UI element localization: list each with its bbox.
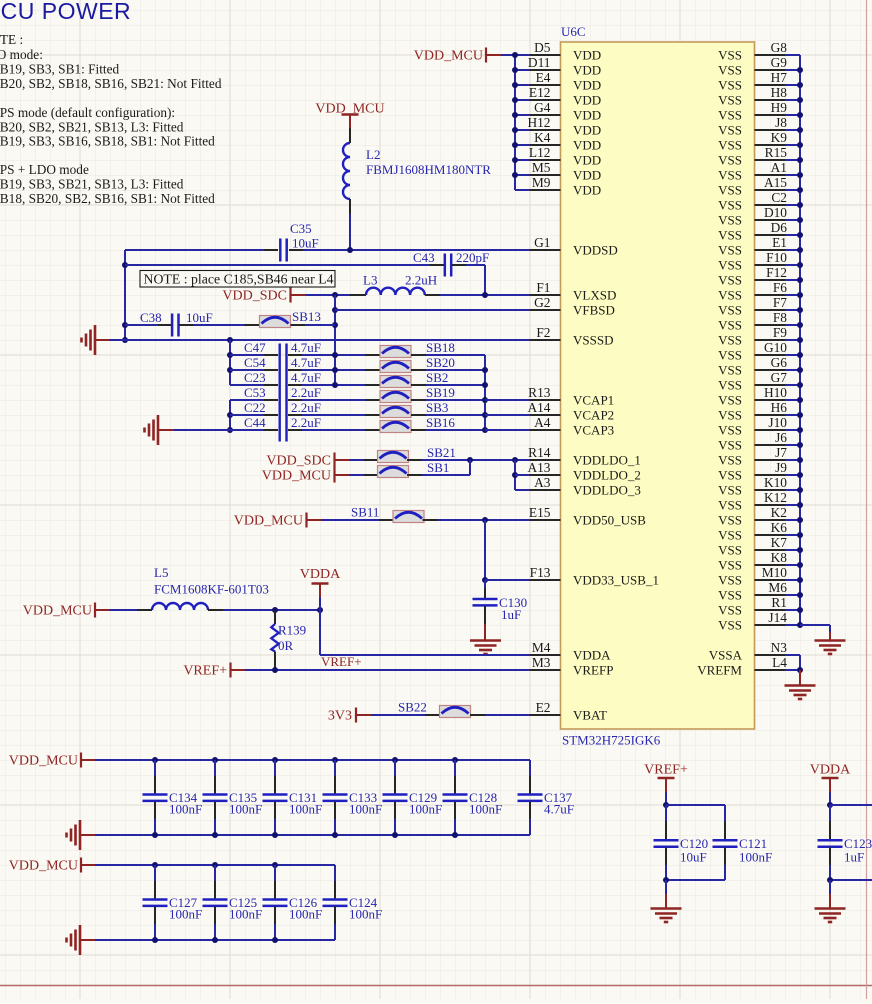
wire bus to pin row 115 xyxy=(515,114,530,116)
svg-text:E12: E12 xyxy=(529,85,551,100)
wire C22 to SB3 xyxy=(302,414,365,416)
svg-text:VDD: VDD xyxy=(573,63,601,78)
wire bank2 bottom rail xyxy=(95,939,335,941)
pin N3 VSSA xyxy=(755,654,786,656)
svg-text:C44: C44 xyxy=(244,415,266,430)
svg-text:VSS: VSS xyxy=(718,63,742,78)
junction VDD_SDC bus xyxy=(332,292,338,298)
node C43 row xyxy=(125,264,430,266)
pin R14 VDDLDO_1 xyxy=(530,459,561,461)
svg-text:J6: J6 xyxy=(775,430,787,445)
capacitor C120 xyxy=(665,805,667,821)
capacitor C134 xyxy=(152,757,158,763)
svg-text:G6: G6 xyxy=(771,355,788,370)
pin A15 VSS xyxy=(755,189,786,191)
junction VREF+ top xyxy=(663,802,669,808)
svg-text:VSS: VSS xyxy=(718,438,742,453)
svg-text:VDDLDO_2: VDDLDO_2 xyxy=(573,468,641,483)
svg-text:F13: F13 xyxy=(530,565,551,580)
wire VSSSD row xyxy=(110,339,530,341)
svg-text:1uF: 1uF xyxy=(844,850,864,865)
wire SB16 to VCAP bus xyxy=(426,429,485,431)
svg-text:A14: A14 xyxy=(527,400,550,415)
svg-text:VSS: VSS xyxy=(718,603,742,618)
wire ground to C44 xyxy=(174,429,230,431)
pin D5 VDD xyxy=(530,54,561,56)
pin G1 VDDSD xyxy=(530,249,561,251)
svg-text:G1: G1 xyxy=(534,235,550,250)
svg-text:VSS: VSS xyxy=(718,93,742,108)
capacitor C131 xyxy=(272,757,278,763)
svg-text:VSS: VSS xyxy=(718,258,742,273)
junction VREFM xyxy=(797,667,803,673)
svg-text:SB16: SB16 xyxy=(426,415,455,430)
wire SB1 out xyxy=(422,474,470,476)
svg-text:VSS: VSS xyxy=(718,588,742,603)
svg-text:H7: H7 xyxy=(771,70,788,85)
svg-text:VCAP1: VCAP1 xyxy=(573,393,614,408)
svg-text:100nF: 100nF xyxy=(349,802,382,817)
solder bridge SB19 xyxy=(365,399,380,401)
svg-text:C2: C2 xyxy=(771,190,787,205)
wire SB21 to pin R14 xyxy=(422,459,530,461)
wire to VDD bus xyxy=(501,54,515,56)
wire red stub VREF+ xyxy=(665,779,667,792)
C129 plates xyxy=(383,795,408,801)
wire to pin A13 xyxy=(515,474,530,476)
capacitor C125 xyxy=(212,862,218,868)
wire red stub L2 xyxy=(349,116,351,129)
wire bus to pin row 160 xyxy=(515,159,530,161)
wire SB11 to pin E15 xyxy=(438,519,531,521)
pin E12 VDD xyxy=(530,99,561,101)
pin K2 VSS xyxy=(755,519,786,521)
svg-text:R14: R14 xyxy=(528,445,551,460)
svg-text:VSSA: VSSA xyxy=(709,648,743,663)
C133 plates xyxy=(323,795,348,801)
svg-text:SB1: SB1 xyxy=(427,460,449,475)
svg-text:F7: F7 xyxy=(773,295,787,310)
wire red stub bank1 gnd xyxy=(80,834,95,836)
C131 plates xyxy=(263,795,288,801)
pin E15 VDD50_USB xyxy=(530,519,561,521)
power bar VDD_MCU xyxy=(342,113,359,115)
svg-text:R139: R139 xyxy=(278,623,306,638)
svg-text:VSS: VSS xyxy=(718,213,742,228)
svg-text:VSS: VSS xyxy=(718,453,742,468)
wire red stub xyxy=(487,54,501,56)
svg-text:L4: L4 xyxy=(772,655,787,670)
svg-text:M4: M4 xyxy=(532,640,551,655)
svg-text:M10: M10 xyxy=(762,565,788,580)
svg-text:G8: G8 xyxy=(771,40,788,55)
wire VREF+ bottom rail xyxy=(666,879,725,881)
junction VDD50 xyxy=(482,517,488,523)
solder bridge SB21 xyxy=(364,459,379,461)
svg-text:SB3: SB3 xyxy=(426,400,448,415)
svg-text:VDDSD: VDDSD xyxy=(573,243,618,258)
SB13 symbol xyxy=(260,316,291,328)
wire VCAP pin row 415 xyxy=(485,414,530,416)
svg-text:2.2uF: 2.2uF xyxy=(291,385,321,400)
inductor L2 xyxy=(349,128,351,143)
note box xyxy=(140,271,335,288)
pin E4 VDD xyxy=(530,84,561,86)
svg-text:VBAT: VBAT xyxy=(573,708,607,723)
wire C23 to SB2 xyxy=(302,384,365,386)
svg-text:SB21: SB21 xyxy=(427,445,456,460)
port bracket VDD_MCU bank1 xyxy=(80,753,82,768)
svg-text:F1: F1 xyxy=(536,280,550,295)
svg-text:E2: E2 xyxy=(536,700,551,715)
wire bank1 top rail xyxy=(95,759,530,761)
wire SB13 to bus xyxy=(305,324,335,326)
svg-text:J14: J14 xyxy=(768,610,787,625)
svg-text:100nF: 100nF xyxy=(739,850,772,865)
junction left bus C38 xyxy=(122,322,128,328)
svg-text:A13: A13 xyxy=(527,460,550,475)
svg-text:A15: A15 xyxy=(764,175,787,190)
svg-text:VDD: VDD xyxy=(573,183,601,198)
svg-text:SB22: SB22 xyxy=(398,700,427,715)
svg-text:H6: H6 xyxy=(771,400,788,415)
svg-text:VDD_MCU: VDD_MCU xyxy=(9,859,78,874)
svg-text:VSS: VSS xyxy=(718,123,742,138)
wire VREF+ rail xyxy=(666,804,725,806)
svg-text:R13: R13 xyxy=(528,385,551,400)
ground bank2 xyxy=(67,925,81,955)
pin R13 VCAP1 xyxy=(530,399,561,401)
svg-text:K7: K7 xyxy=(771,535,788,550)
wire to pin A3 xyxy=(515,489,530,491)
svg-text:G9: G9 xyxy=(771,55,788,70)
svg-text:G10: G10 xyxy=(764,340,787,355)
ground VSSA xyxy=(785,686,816,700)
junction R139 bottom xyxy=(272,667,278,673)
svg-text:100nF: 100nF xyxy=(469,802,502,817)
wire red stub VDD_SDC xyxy=(292,294,307,296)
svg-text:100nF: 100nF xyxy=(229,907,262,922)
wire SB3 to VCAP bus xyxy=(426,414,485,416)
pin C2 VSS xyxy=(755,204,786,206)
wire red stub xyxy=(336,474,350,476)
svg-text:100nF: 100nF xyxy=(229,802,262,817)
capacitor C43 plates xyxy=(445,254,451,277)
svg-text:VSS: VSS xyxy=(718,303,742,318)
svg-text:10uF: 10uF xyxy=(292,236,319,251)
pin K6 VSS xyxy=(755,534,786,536)
wire VSSA/VREFM xyxy=(785,654,800,656)
svg-text:2.2uF: 2.2uF xyxy=(291,415,321,430)
svg-text:K12: K12 xyxy=(764,490,787,505)
pin F6 VSS xyxy=(755,294,786,296)
svg-text:VSS: VSS xyxy=(718,318,742,333)
pin J14 VSS xyxy=(755,624,786,626)
svg-text:VDD: VDD xyxy=(573,108,601,123)
svg-text:VREFP: VREFP xyxy=(573,663,613,678)
svg-text:C23: C23 xyxy=(244,370,266,385)
solder bridge SB16 xyxy=(365,429,380,431)
svg-text:VSS: VSS xyxy=(718,183,742,198)
junction bus G2 xyxy=(332,307,338,313)
wire red stub ground2 xyxy=(158,429,174,431)
svg-text:1uF: 1uF xyxy=(501,607,521,622)
svg-text:VSS: VSS xyxy=(718,618,742,633)
capacitor C130 xyxy=(484,580,486,588)
wire red stub xyxy=(308,519,322,521)
wire red stub xyxy=(232,669,246,671)
svg-text:VDD_MCU: VDD_MCU xyxy=(9,754,78,769)
svg-text:NOTE :: NOTE : xyxy=(0,32,23,47)
pin E1 VSS xyxy=(755,249,786,251)
svg-text:N3: N3 xyxy=(771,640,788,655)
pin A4 VCAP3 xyxy=(530,429,561,431)
junction VDD bus 115 xyxy=(512,112,518,118)
inductor L5 xyxy=(137,609,152,611)
svg-text:100nF: 100nF xyxy=(169,802,202,817)
svg-text:C47: C47 xyxy=(244,340,266,355)
wire VSS bus xyxy=(799,55,801,625)
pin L12 VDD xyxy=(530,159,561,161)
solder bridge SB13 xyxy=(245,324,260,326)
SB20 symbol xyxy=(380,361,411,373)
wire SB20 to VCAP bus xyxy=(426,369,485,371)
wire bus to pin row 190 xyxy=(515,189,530,191)
svg-text:NOTE : place C185,SB46 near L4: NOTE : place C185,SB46 near L4 xyxy=(144,272,334,287)
svg-text:F10: F10 xyxy=(766,250,787,265)
svg-text:A1: A1 xyxy=(771,160,787,175)
svg-text:VDD: VDD xyxy=(573,78,601,93)
wire to SB22 xyxy=(371,714,425,716)
wire C54 to SB20 xyxy=(302,369,365,371)
pin F1 VLXSD xyxy=(530,294,561,296)
svg-text:H12: H12 xyxy=(527,115,550,130)
svg-text:VCAP3: VCAP3 xyxy=(573,423,614,438)
svg-text:D10: D10 xyxy=(764,205,787,220)
wire bank2 top rail xyxy=(95,864,335,866)
pin M6 VSS xyxy=(755,594,786,596)
solder bridge SB3 xyxy=(365,414,380,416)
sheet border right xyxy=(866,0,868,999)
svg-text:A3: A3 xyxy=(534,475,551,490)
pin F7 VSS xyxy=(755,309,786,311)
SB21 symbol xyxy=(378,451,409,463)
svg-text:SB20, SB2, SB21, SB13, L3: Fit: SB20, SB2, SB21, SB13, L3: Fitted xyxy=(0,120,184,135)
pin H6 VSS xyxy=(755,414,786,416)
pin H12 VDD xyxy=(530,129,561,131)
wire red stub bank2 gnd xyxy=(80,939,95,941)
svg-text:4.7uF: 4.7uF xyxy=(291,355,321,370)
pin K12 VSS xyxy=(755,504,786,506)
pin R15 VSS xyxy=(755,159,786,161)
svg-text:VSS: VSS xyxy=(718,468,742,483)
svg-text:VSS: VSS xyxy=(718,198,742,213)
capacitor C35 xyxy=(264,249,278,251)
pin F8 VSS xyxy=(755,324,786,326)
junction SB1 join xyxy=(467,457,473,463)
capacitor C38 plates xyxy=(172,314,178,337)
wire to SB21 xyxy=(349,459,364,461)
svg-text:VSS: VSS xyxy=(718,243,742,258)
junction left bus VSSSD xyxy=(122,337,128,343)
wire red stub xyxy=(82,759,95,761)
svg-text:VREF+: VREF+ xyxy=(183,664,227,679)
wire C35 to pin G1 xyxy=(303,249,530,251)
capacitor C23 xyxy=(230,384,264,386)
port bracket 3V3 xyxy=(355,708,357,723)
svg-text:VSS: VSS xyxy=(718,558,742,573)
junction R139 top xyxy=(272,607,278,613)
svg-text:C54: C54 xyxy=(244,355,266,370)
wire VCAP bus xyxy=(484,355,486,430)
wire SB1 up to SB21 net xyxy=(469,460,471,475)
junction VDDA bottom xyxy=(827,877,833,883)
pin F2 VSSSD xyxy=(530,339,561,341)
resistor R139 xyxy=(274,610,276,624)
svg-text:H10: H10 xyxy=(764,385,787,400)
junction VDDA xyxy=(317,607,323,613)
svg-text:C38: C38 xyxy=(140,310,162,325)
junction VCAP bus 430 xyxy=(482,427,488,433)
svg-text:2.2uF: 2.2uF xyxy=(291,400,321,415)
pin R1 VSS xyxy=(755,609,786,611)
pin G6 VSS xyxy=(755,369,786,371)
svg-text:F12: F12 xyxy=(766,265,787,280)
junction VDD bus 175 xyxy=(512,172,518,178)
wire SB22 to pin E2 xyxy=(486,714,531,716)
capacitor C126 xyxy=(272,862,278,868)
svg-text:VDD: VDD xyxy=(573,93,601,108)
wire red stub VSS gnd xyxy=(829,632,831,640)
svg-text:E4: E4 xyxy=(536,70,551,85)
svg-text:SB2: SB2 xyxy=(426,370,448,385)
svg-text:G2: G2 xyxy=(534,295,550,310)
wire SB2 to VCAP bus xyxy=(426,384,485,386)
svg-text:VSS: VSS xyxy=(718,228,742,243)
svg-text:VDD_SDC: VDD_SDC xyxy=(266,454,331,469)
wire VDDA down xyxy=(319,597,321,610)
pin J7 VSS xyxy=(755,459,786,461)
svg-text:VSS: VSS xyxy=(718,288,742,303)
C121 plates xyxy=(713,840,738,846)
svg-text:L3: L3 xyxy=(363,273,377,288)
svg-text:A4: A4 xyxy=(534,415,551,430)
SB19 symbol xyxy=(380,391,411,403)
solder bridge SB20 xyxy=(365,369,380,371)
pin G4 VDD xyxy=(530,114,561,116)
svg-text:L12: L12 xyxy=(529,145,551,160)
pin A14 VCAP2 xyxy=(530,414,561,416)
wire to SB11 xyxy=(321,519,380,521)
svg-text:VSS: VSS xyxy=(718,378,742,393)
junction F13 xyxy=(482,577,488,583)
port bracket VREF+ xyxy=(229,663,231,678)
wire red stub C130 gnd xyxy=(484,624,486,640)
port bracket VDD_MCU bank2 xyxy=(80,858,82,873)
pin J10 VSS xyxy=(755,429,786,431)
svg-text:R1: R1 xyxy=(771,595,787,610)
pin G9 VSS xyxy=(755,69,786,71)
solder bridge SB18 xyxy=(365,354,380,356)
wire VDD_SDC to L3 xyxy=(306,294,350,296)
svg-text:SMPS + LDO mode: SMPS + LDO mode xyxy=(0,162,89,177)
svg-text:FCM1608KF-601T03: FCM1608KF-601T03 xyxy=(154,582,269,597)
svg-text:M5: M5 xyxy=(532,160,551,175)
capacitor C54 xyxy=(230,369,264,371)
svg-text:SB20: SB20 xyxy=(426,355,455,370)
svg-text:VFBSD: VFBSD xyxy=(573,303,615,318)
pin J6 VSS xyxy=(755,444,786,446)
svg-text:VDD: VDD xyxy=(573,123,601,138)
wire red stub VDDA xyxy=(319,585,321,598)
svg-text:R15: R15 xyxy=(765,145,788,160)
junction VSSSD cap bus xyxy=(227,337,233,343)
svg-text:VREF+: VREF+ xyxy=(644,763,688,778)
svg-text:K4: K4 xyxy=(534,130,551,145)
wire VDD50 down to F13 xyxy=(484,520,486,580)
svg-text:VSS: VSS xyxy=(718,363,742,378)
junction VDDLDO2 xyxy=(512,472,518,478)
wire L2 to VDDSD net xyxy=(349,214,351,250)
wire L5 to VDDA net xyxy=(223,609,320,611)
svg-text:SB19, SB3, SB16, SB18, SB1: No: SB19, SB3, SB16, SB18, SB1: Not Fitted xyxy=(0,134,215,149)
wire bus to pin row 55 xyxy=(515,54,530,56)
VDD bus vertical xyxy=(514,55,516,190)
svg-text:F8: F8 xyxy=(773,310,787,325)
svg-text:J8: J8 xyxy=(775,115,787,130)
pin A13 VDDLDO_2 xyxy=(530,474,561,476)
pin F13 VDD33_USB_1 xyxy=(530,579,561,581)
pin F12 VSS xyxy=(755,279,786,281)
svg-text:SB13: SB13 xyxy=(292,309,321,324)
svg-text:VSS: VSS xyxy=(718,573,742,588)
wire C43 down to VLXSD xyxy=(484,265,486,295)
svg-text:LDO mode:: LDO mode: xyxy=(0,47,43,62)
wire bus to pin row 70 xyxy=(515,69,530,71)
svg-text:VDDA: VDDA xyxy=(573,648,611,663)
solder bridge SB1 xyxy=(364,474,379,476)
C137 plates xyxy=(518,795,543,801)
svg-text:SB19, SB3, SB1: Fitted: SB19, SB3, SB1: Fitted xyxy=(0,62,119,77)
wire C47 to SB18 xyxy=(302,354,365,356)
junction VDDA top xyxy=(827,802,833,808)
port bracket VDD_MCU LDO xyxy=(333,468,335,483)
svg-text:0R: 0R xyxy=(278,638,294,653)
wire VFBSD row xyxy=(335,309,530,311)
wire red stub VREF+ gnd xyxy=(665,894,667,908)
SB22 symbol xyxy=(440,706,471,718)
capacitor C44 xyxy=(230,429,264,431)
wire C53 to SB19 xyxy=(302,399,365,401)
capacitor C22 xyxy=(230,414,264,416)
wire red stub xyxy=(96,609,110,611)
pin M4 VDDA xyxy=(530,654,561,656)
svg-text:VSS: VSS xyxy=(718,138,742,153)
pin D6 VSS xyxy=(755,234,786,236)
junction VDD bus 130 xyxy=(512,127,518,133)
wire red stub VDDA2 xyxy=(829,779,831,792)
svg-text:SB19: SB19 xyxy=(426,385,455,400)
wire C43 right xyxy=(466,264,485,266)
svg-text:M9: M9 xyxy=(532,175,551,190)
solder bridge SB2 xyxy=(365,384,380,386)
pin H7 VSS xyxy=(755,84,786,86)
wire red stub VSSA gnd xyxy=(799,670,801,685)
svg-text:VDDA: VDDA xyxy=(810,763,851,778)
svg-text:100nF: 100nF xyxy=(289,907,322,922)
wire L3 to pin F1 xyxy=(440,294,530,296)
junction C44 xyxy=(227,427,233,433)
